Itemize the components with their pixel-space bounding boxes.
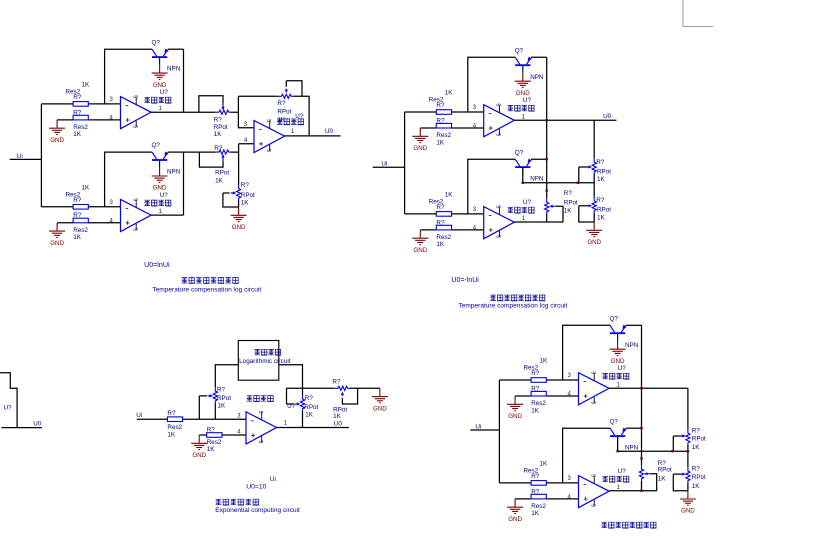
labels Q? NPN (TR cell C Q?) <box>515 47 544 80</box>
svg-text:1K: 1K <box>658 476 667 483</box>
svg-text:GND: GND <box>516 90 530 97</box>
svg-text:5: 5 <box>589 474 595 477</box>
svg-text:R?: R? <box>214 116 223 123</box>
svg-text:5: 5 <box>265 149 271 152</box>
labels R? RPot 1K (BL gnd pot) <box>332 379 347 421</box>
label 集成运放 (TR cell C) <box>508 105 535 111</box>
junction (TR output/vertical) <box>546 119 548 121</box>
resistor R? Res2 1K (TL cell A pin4) <box>73 115 88 120</box>
svg-text:NPN: NPN <box>167 169 181 176</box>
labels R? RPot 1K (BL out pot) <box>304 395 318 418</box>
svg-text:Res2: Res2 <box>436 132 451 139</box>
wire emitter (TR cell C Q?) <box>531 56 547 58</box>
potentiometer R? RPot 1K (BL fb pot) <box>199 387 217 419</box>
label 对数电路 (BL box) <box>255 349 282 355</box>
wire emitter (BR cell E Q?) <box>626 324 642 326</box>
labels R? / Res2 / 1K (TR cell D pin4) <box>436 219 451 248</box>
wire collector loop (BR cell E Q?) <box>563 325 610 380</box>
ground (TL gnd pot) <box>231 207 247 231</box>
labels Q? NPN (TL cell A Q?) <box>152 39 181 72</box>
svg-text:R?: R? <box>73 94 82 101</box>
labels R? RPot 1K (TR mid pot) <box>564 190 578 214</box>
svg-text:RPot: RPot <box>692 474 706 481</box>
svg-text:RPot: RPot <box>277 108 291 115</box>
svg-text:R?: R? <box>531 488 540 495</box>
wire U2 output U0 (TL) <box>285 135 341 137</box>
wire collector loop (TL cell B Q?) <box>105 152 152 207</box>
svg-text:GND: GND <box>192 452 206 459</box>
svg-text:R?: R? <box>436 102 445 109</box>
svg-text:U?: U? <box>618 365 627 372</box>
svg-text:Q?: Q? <box>610 315 619 322</box>
svg-text:5: 5 <box>257 411 263 414</box>
wire op D output (TR) <box>514 221 563 223</box>
svg-text:R?: R? <box>436 117 445 124</box>
wire to op pin3 (BL) <box>183 418 246 420</box>
caption 温度补偿对数电路 (TL) <box>182 277 239 283</box>
resistor R? Res2 1K (TR cell C pin4) <box>436 123 451 128</box>
wire pin3 input (TR cell D) <box>405 213 484 215</box>
svg-text:1K: 1K <box>207 446 216 453</box>
svg-text:GND: GND <box>508 413 522 420</box>
labels R? RPot 1K (TR divider pot2) <box>596 197 611 221</box>
caption formula U0=10^Ui (BL) <box>246 476 276 490</box>
svg-text:R?: R? <box>332 379 341 386</box>
svg-text:5: 5 <box>495 235 501 238</box>
resistor R? Res2 1K (TR cell D pin4) <box>436 225 451 230</box>
svg-text:5: 5 <box>589 371 595 374</box>
label 集成运放 (BR cell F) <box>602 476 629 482</box>
ground (base of Q?, TL cell A Q?) <box>152 65 168 89</box>
op-amp U? (TR cell D) <box>484 205 515 238</box>
labels R? RPot 1K (TL U2 feedback) <box>277 100 291 124</box>
svg-text:Ui: Ui <box>136 412 142 419</box>
op-amp U? (BR cell E) <box>579 371 610 404</box>
wire input bus (top-left) <box>40 104 42 207</box>
ground (base of Q?, TR cell C Q?) <box>515 73 531 97</box>
svg-text:RPot: RPot <box>214 124 228 131</box>
svg-text:GND: GND <box>413 145 427 152</box>
ground (BR cell E pin4) <box>507 396 523 420</box>
svg-text:RPot: RPot <box>304 404 318 411</box>
svg-text:U0: U0 <box>603 113 612 120</box>
wire to GND pot (TL) <box>238 200 240 207</box>
svg-text:U0: U0 <box>325 128 334 135</box>
wire pin4 (TL cell A) <box>57 119 120 121</box>
caption 温度补偿对数电路 (TR) <box>490 295 545 301</box>
svg-text:R?: R? <box>531 385 540 392</box>
svg-text:5: 5 <box>131 95 137 98</box>
svg-text:GND: GND <box>50 240 64 247</box>
svg-text:5: 5 <box>495 103 501 106</box>
svg-text:1K: 1K <box>597 215 606 222</box>
svg-text:GND: GND <box>413 247 427 254</box>
pin numbers 3 4 (TR cell C) <box>473 105 477 130</box>
svg-text:GND: GND <box>508 516 522 523</box>
svg-text:Temperature compensation log c: Temperature compensation log circuit <box>459 303 568 310</box>
svg-text:Exponential computing circuit: Exponential computing circuit <box>215 507 300 514</box>
ground (TL cell B pin4) <box>49 223 65 247</box>
wire collector loop (TR cell D Q?) <box>468 159 515 214</box>
resistor R? Res2 1K (BL pin4) <box>207 433 222 438</box>
wire collector loop (TL cell A Q?) <box>105 49 152 104</box>
svg-text:1K: 1K <box>333 413 342 420</box>
wire pin4 (TR cell C) <box>420 127 483 129</box>
wire base of Q? to divider (TR) <box>523 167 594 183</box>
svg-text:U0: U0 <box>33 420 42 427</box>
transistor Q? NPN (TR cell C Q?) <box>515 57 532 73</box>
svg-text:1K: 1K <box>531 510 540 517</box>
wire op output U0 (BL) <box>277 427 349 429</box>
wire divider vertical (TR) <box>593 120 595 222</box>
ground (TR cell D pin4) <box>412 230 428 254</box>
svg-text:1K: 1K <box>531 407 540 414</box>
svg-text:1K: 1K <box>218 403 227 410</box>
svg-text:1K: 1K <box>215 177 224 184</box>
wire to GND pot (BL right) <box>303 387 380 389</box>
svg-text:U?: U? <box>160 89 169 96</box>
wire op B output (TL) <box>151 214 183 216</box>
designator U? and name (TR cell C) <box>523 97 532 104</box>
labels Q? NPN (BR cell F Q?) <box>610 418 639 451</box>
labels R? / Res2 / 1K (BR cell E pin4) <box>531 385 546 414</box>
svg-text:NPN: NPN <box>625 342 639 349</box>
transistor Q? NPN (TL cell B Q?) <box>152 151 169 167</box>
wire op B feedback right vertical (TL) <box>183 152 185 215</box>
box 对数电路 Logarithmic circuit (BL) <box>238 341 278 381</box>
svg-text:5: 5 <box>257 440 263 443</box>
svg-text:5: 5 <box>265 119 271 122</box>
svg-text:NPN: NPN <box>167 66 181 73</box>
ground (base of Q?, BR cell E Q?) <box>610 341 626 365</box>
wire pin3 input (BR cell F) <box>499 482 578 484</box>
svg-text:Q?: Q? <box>515 149 524 156</box>
resistor R? Res2 1K (BR cell E pin3) <box>531 378 546 383</box>
svg-text:RPot: RPot <box>692 435 706 442</box>
potentiometer R? RPot 1K (TR divider pot1) <box>579 158 597 183</box>
svg-text:Q?: Q? <box>152 39 161 46</box>
potentiometer R? RPot 1K (TL U2 feedback) <box>278 81 303 99</box>
svg-text:U?: U? <box>523 97 532 104</box>
wire pin4 (TR cell D) <box>420 229 483 231</box>
op-amp U? (BL op) <box>246 411 277 444</box>
svg-text:U0=-lnUi: U0=-lnUi <box>451 277 479 284</box>
wire pin4 (BL) <box>199 434 246 436</box>
wire box right to divider pot (BL) <box>279 365 303 395</box>
resistor R? Res2 1K (TL cell A pin3) <box>73 102 88 107</box>
svg-text:Q?: Q? <box>515 47 524 54</box>
sheet corner border (gray) <box>683 0 713 27</box>
svg-text:5: 5 <box>131 198 137 201</box>
svg-text:5: 5 <box>131 125 137 128</box>
labels R? RPot 1K (TL pot1) <box>214 116 228 138</box>
svg-text:RPot: RPot <box>215 170 229 177</box>
svg-text:RPot: RPot <box>241 192 255 199</box>
svg-text:U?: U? <box>523 199 532 206</box>
svg-text:Res2: Res2 <box>531 400 546 407</box>
pin numbers 3 4 (TL cell B) <box>110 200 114 225</box>
svg-text:GND: GND <box>50 137 64 144</box>
potentiometer R? RPot 1K (TR mid pot) <box>545 198 563 222</box>
op-amp U? (TL U2) <box>254 119 285 152</box>
labels Q? NPN (BR cell E Q?) <box>610 315 639 348</box>
svg-text:1K: 1K <box>597 176 606 183</box>
wire input bus (bottom-right) <box>498 380 500 483</box>
potentiometer R? RPot 1K (TL gnd pot) <box>223 185 241 208</box>
potentiometer R? RPot 1K (TL pot2) <box>199 150 230 167</box>
junction (TR emitter/vertical) <box>546 158 548 160</box>
value 1K / Res2 / R? labels (TL cell B pin3) <box>66 184 91 204</box>
ground (BR cell F pin4) <box>507 499 523 523</box>
svg-text:R?: R? <box>73 109 82 116</box>
svg-text:1K: 1K <box>214 131 223 138</box>
potentiometer R? RPot 1K (BL gnd pot) <box>334 386 358 404</box>
svg-text:R?: R? <box>305 395 314 402</box>
labels R? RPot 1K (TR divider pot1) <box>596 159 611 183</box>
value 1K / Res2 / R? labels (TR cell D pin3) <box>429 191 454 211</box>
labels R? Res2 1K (BL input) <box>167 410 182 439</box>
resistor R? Res2 1K (BR cell F pin4) <box>531 494 546 499</box>
junction (TR vertical below base wire) <box>546 189 548 191</box>
svg-text:1K: 1K <box>73 131 82 138</box>
svg-text:1K: 1K <box>445 90 454 97</box>
transistor Q? NPN (BR cell F Q?) <box>610 428 627 444</box>
svg-text:Q?: Q? <box>152 142 161 149</box>
wire pin3 input (TL cell A) <box>41 103 120 105</box>
ground (TL cell A pin4) <box>49 120 65 144</box>
ground (BL pin4) <box>191 435 207 459</box>
svg-text:1K: 1K <box>82 184 91 191</box>
labels R? RPot 1K (BR divider pot1) <box>692 428 706 452</box>
op-amp U? (TL cell B) <box>121 198 152 231</box>
wire base of Q? to divider (BR) <box>618 436 688 451</box>
junction (BR output/vertical) <box>640 387 642 389</box>
ground (TR divider) <box>586 222 602 246</box>
designator U? and name (TL cell B) <box>160 192 169 199</box>
svg-text:GND: GND <box>373 405 387 412</box>
svg-text:1K: 1K <box>241 200 250 207</box>
svg-text:NPN: NPN <box>530 176 544 183</box>
svg-text:R?: R? <box>596 159 605 166</box>
designator U? and name (TL cell A) <box>160 89 169 96</box>
wire collector loop (BR cell F Q?) <box>563 428 610 483</box>
ground (BR divider) <box>680 491 696 515</box>
svg-text:1K: 1K <box>436 241 445 248</box>
svg-text:R?: R? <box>692 466 701 473</box>
labels R? RPot 1K (BR divider pot2) <box>692 466 706 490</box>
pin numbers 3 4 (BR cell E) <box>568 373 572 398</box>
svg-text:1K: 1K <box>436 139 445 146</box>
pin numbers 3 4 (BR cell F) <box>568 476 572 501</box>
label 集成运放 (BL op) <box>247 395 274 401</box>
wire divider vertical (BR) <box>687 388 689 490</box>
svg-text:Res2: Res2 <box>73 124 88 131</box>
potentiometer R? RPot 1K (TL pot1) <box>199 96 231 114</box>
wire op A feedback right vertical (TL) <box>183 49 185 112</box>
wire collector loop (TR cell C Q?) <box>468 57 515 112</box>
svg-text:RPot: RPot <box>597 207 611 214</box>
svg-text:1K: 1K <box>564 208 573 215</box>
svg-text:RPot: RPot <box>597 169 611 176</box>
ground (TR cell C pin4) <box>412 128 428 152</box>
svg-text:1K: 1K <box>540 460 549 467</box>
svg-text:R?: R? <box>277 100 286 107</box>
transistor Q? NPN (TL cell A Q?) <box>152 49 169 65</box>
caption 温度补偿对数电路 (BR) <box>602 522 657 528</box>
labels R? / Res2 / 1K (TR cell C pin4) <box>436 117 451 146</box>
junction (BR emitter/vertical) <box>640 427 642 429</box>
labels R? RPot 1K (TL gnd pot) <box>241 182 255 207</box>
wire Ui input (top-left) <box>10 158 42 160</box>
label 集成运放 (TL cell A) <box>144 97 171 103</box>
junction (BR base corner) <box>616 450 618 452</box>
svg-text:5: 5 <box>131 228 137 231</box>
svg-text:U?: U? <box>160 192 169 199</box>
wire pin4 (BR cell E) <box>515 395 578 397</box>
svg-text:5: 5 <box>589 504 595 507</box>
svg-text:GND: GND <box>153 185 167 192</box>
wire op F output (BR) <box>609 490 657 492</box>
svg-text:GND: GND <box>232 224 246 231</box>
wire op A output (TL) <box>151 111 238 113</box>
svg-text:Res2: Res2 <box>73 227 88 234</box>
label 集成运放 (TR cell D) <box>508 207 535 213</box>
resistor R? Res2 1K (TR cell C pin3) <box>436 110 451 115</box>
svg-text:U0: U0 <box>334 420 343 427</box>
svg-text:Ui: Ui <box>270 476 276 483</box>
labels R? RPot 1K (TL pot2) <box>214 145 229 184</box>
svg-text:5: 5 <box>495 205 501 208</box>
svg-text:1K: 1K <box>445 191 454 198</box>
resistor R? Res2 1K (TL cell B pin3) <box>73 205 88 210</box>
wire Ui input (bottom-left) <box>137 418 168 420</box>
svg-text:R?: R? <box>692 428 701 435</box>
svg-text:Ui: Ui <box>475 423 481 430</box>
wire U2 feedback top (TL) <box>238 96 309 136</box>
svg-text:1K: 1K <box>277 117 286 124</box>
wire long vertical from Q? C emitter (TR) <box>546 57 548 198</box>
wire emitter (BR cell F Q?) <box>626 427 642 429</box>
wire pin4 (TL cell B) <box>57 222 120 224</box>
resistor R? Res2 1K (TR cell D pin3) <box>436 212 451 217</box>
svg-text:Q?: Q? <box>610 418 619 425</box>
labels R? RPot 1K (BR mid pot) <box>658 460 672 483</box>
resistor R? Res2 1K (BR cell E pin4) <box>531 391 546 396</box>
ground (BL right) <box>372 388 388 412</box>
label 集成运放 (TL cell B) <box>144 200 171 206</box>
transistor Q? NPN (TR cell D Q?) <box>515 159 532 175</box>
svg-text:R?: R? <box>531 473 540 480</box>
wire pin4 (BR cell F) <box>515 498 578 500</box>
junction (BR vertical below base wire) <box>640 457 642 459</box>
labels R? / Res2 / 1K (TL cell A pin4) <box>73 109 88 138</box>
labels R? RPot 1K (BL fb pot) <box>217 387 231 410</box>
svg-text:1K: 1K <box>692 483 701 490</box>
value 1K / Res2 / R? labels (BR cell E pin3) <box>524 358 549 378</box>
potentiometer R? RPot 1K (BR mid pot) <box>639 465 656 491</box>
value 1K / Res2 / R? labels (TL cell A pin3) <box>66 81 91 101</box>
ground (base of Q?, TL cell B Q?) <box>152 168 168 192</box>
svg-text:1K: 1K <box>73 234 82 241</box>
wire emitter (TR cell D Q?) <box>531 158 547 160</box>
op-amp U? (TR cell C) <box>484 103 515 136</box>
wire partial circuit at left edge (BL) <box>0 373 42 428</box>
svg-text:1K: 1K <box>167 432 176 439</box>
svg-text:GND: GND <box>681 508 695 515</box>
svg-text:NPN: NPN <box>530 74 544 81</box>
svg-text:RPot: RPot <box>658 467 672 474</box>
wire box left feedback (BL) <box>215 365 238 387</box>
junction (BR base wire end) <box>687 450 689 452</box>
svg-text:R?: R? <box>531 370 540 377</box>
svg-text:1K: 1K <box>82 81 91 88</box>
label 集成运放 (TL U2) <box>277 119 304 125</box>
designator U? and name (TR cell D) <box>523 199 532 206</box>
svg-text:1K: 1K <box>305 411 314 418</box>
svg-text:U0=10: U0=10 <box>246 484 266 491</box>
labels R? / Res2 / 1K (BR cell F pin4) <box>531 488 546 517</box>
svg-text:R?: R? <box>596 197 605 204</box>
value 1K / Res2 / R? labels (BR cell F pin3) <box>524 460 549 480</box>
svg-text:R?: R? <box>436 204 445 211</box>
wire U2 pin4 vertical (TL) <box>239 144 254 185</box>
wire Ui input (bottom-right) <box>470 429 499 431</box>
wire pin3 input (TR cell C) <box>405 111 484 113</box>
svg-text:Res2: Res2 <box>436 234 451 241</box>
labels Q? NPN (TL cell B Q?) <box>152 142 181 175</box>
svg-text:GND: GND <box>611 358 625 365</box>
potentiometer R? RPot 1K (BR divider pot2) <box>673 467 690 491</box>
designator U? and name (BR cell F) <box>618 468 627 475</box>
wire pin3 input (TL cell B) <box>41 206 120 208</box>
pin numbers 3 4 (TL U2) <box>244 122 248 144</box>
svg-text:R?: R? <box>73 197 82 204</box>
svg-text:GND: GND <box>587 239 601 246</box>
wire emitter (TL cell B Q?) <box>168 151 184 153</box>
svg-text:RPot: RPot <box>217 395 231 402</box>
potentiometer R? RPot 1K (BL out pot) <box>287 388 305 427</box>
transistor Q? NPN (BR cell E Q?) <box>610 325 627 341</box>
wire emitter (TL cell A Q?) <box>168 48 184 50</box>
op-amp U? (BR cell F) <box>579 474 610 507</box>
wire op C output U0 (TR) <box>514 119 616 121</box>
labels R? / Res2 / 1K (TL cell B pin4) <box>73 212 88 241</box>
wire input bus (top-right) <box>404 112 406 214</box>
pin numbers 3 4 (TR cell D) <box>473 207 477 232</box>
svg-text:R?: R? <box>207 427 216 434</box>
wire long vertical from Q? E emitter (BR) <box>641 325 643 465</box>
svg-text:R?: R? <box>564 190 573 197</box>
svg-text:U?: U? <box>618 468 627 475</box>
svg-text:Res2: Res2 <box>531 503 546 510</box>
svg-text:Ui: Ui <box>381 160 387 167</box>
wire U2 pin3 vertical (TL) <box>238 96 254 128</box>
svg-text:1K: 1K <box>692 444 701 451</box>
value 1K / Res2 / R? labels (TR cell C pin3) <box>429 90 454 110</box>
resistor R? Res2 1K (BR cell F pin3) <box>531 481 546 486</box>
pin numbers 3 4 (BL op) <box>237 414 241 436</box>
wire Ui input (top-right) <box>373 166 405 168</box>
potentiometer R? RPot 1K (TR divider pot2) <box>579 197 597 222</box>
svg-text:5: 5 <box>589 401 595 404</box>
op-amp U? (TL cell A) <box>121 95 152 128</box>
svg-text:Res2: Res2 <box>167 424 182 431</box>
svg-text:R?: R? <box>436 219 445 226</box>
label 集成运放 (BR cell E) <box>602 373 629 379</box>
designator U? and name (BR cell E) <box>618 365 627 372</box>
junction (BR divider/base wire) <box>671 450 673 452</box>
junction (TR base corner) <box>522 182 524 184</box>
